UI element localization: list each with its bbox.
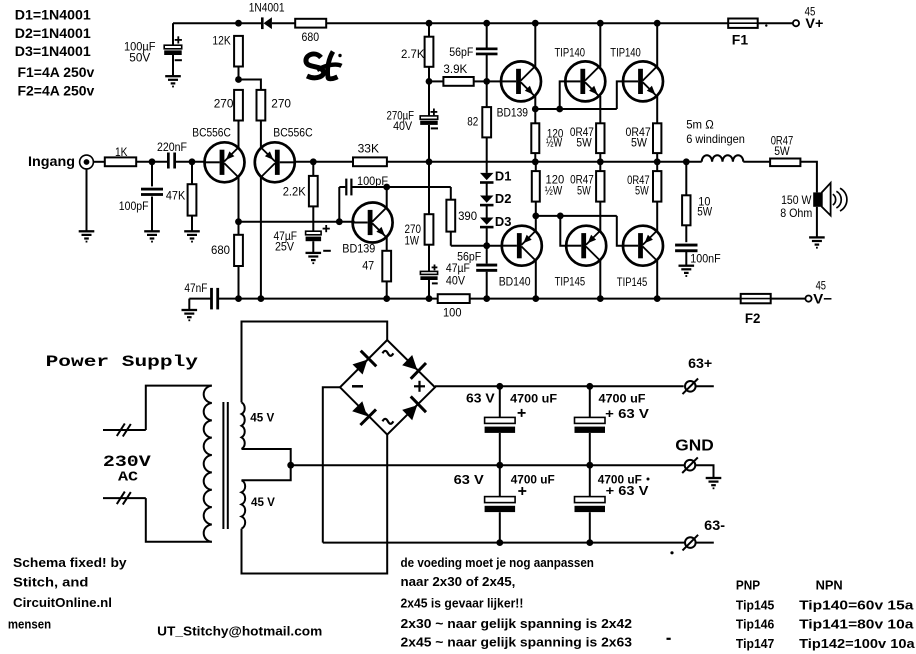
bridge diode BR3 (left-bottom)	[352, 401, 367, 416]
svg-text:270: 270	[214, 96, 234, 110]
stray mark (dash)	[667, 638, 671, 640]
wire TIP145-2 base riser	[617, 216, 623, 246]
svg-text:63+: 63+	[688, 355, 712, 371]
wire bias node to Q4 base	[487, 80, 502, 82]
label + (bridge right)	[414, 385, 425, 387]
svg-text:63 V: 63 V	[466, 390, 495, 405]
junction 3.9K / 82	[483, 78, 490, 85]
svg-text:270: 270	[271, 96, 291, 110]
wire D3 to BD140 base node	[486, 227, 488, 246]
junction node C	[532, 106, 539, 113]
svg-text:5W: 5W	[631, 137, 647, 149]
svg-text:1W: 1W	[405, 233, 420, 247]
transistor Q3 BD139 (VAS)	[353, 203, 393, 243]
svg-text:2x45 ~ naar gelijk spanning is: 2x45 ~ naar gelijk spanning is 2x63	[401, 636, 633, 650]
diode D2	[480, 196, 494, 203]
wire primary stub top	[103, 429, 146, 431]
svg-text:BD139: BD139	[497, 105, 529, 119]
capacitor C7 47uF 40V	[428, 245, 430, 272]
resistor R1 1K	[105, 157, 136, 166]
resistor R14 270 1W	[428, 162, 430, 214]
junction GND / cap1	[496, 462, 503, 469]
capacitor C15 4700uF (bottom right)	[589, 465, 591, 496]
junction output rail / bootstrap	[426, 158, 433, 165]
label - (C7)	[432, 282, 438, 284]
svg-text:4700 uF: 4700 uF	[511, 473, 555, 487]
svg-text:5W: 5W	[635, 186, 649, 198]
svg-text:0R47: 0R47	[570, 174, 594, 186]
svg-text:3.9K: 3.9K	[443, 62, 467, 76]
svg-text:150 W: 150 W	[781, 193, 812, 207]
wire primary loop bottom	[146, 498, 212, 542]
wire Q3 collector to node B	[386, 187, 388, 208]
junction node D / TIP145-1 base	[557, 213, 564, 220]
wire D1-D2	[486, 183, 488, 196]
ground (below C2)	[144, 230, 160, 232]
label - (C1)	[175, 59, 182, 61]
svg-text:D2=1N4001: D2=1N4001	[15, 25, 91, 41]
resistor R3 12K	[234, 36, 243, 67]
ground (below C1)	[165, 75, 181, 77]
wire output rail (mid)	[387, 161, 702, 163]
wire input to 1K	[93, 161, 104, 163]
speaker LS1 150W 8 Ohm	[813, 192, 822, 206]
transformer core	[222, 402, 224, 529]
label + (C4)	[323, 228, 330, 230]
svg-text:NPN: NPN	[816, 578, 843, 593]
svg-text:Ingang: Ingang	[28, 153, 75, 169]
svg-text:220nF: 220nF	[157, 140, 187, 154]
transistor Q6 TIP140 (2)	[623, 61, 663, 101]
svg-text:6 windingen: 6 windingen	[686, 132, 745, 146]
wire D2-D3	[486, 205, 488, 217]
resistor R6 47K	[191, 162, 193, 184]
transistor Q9 TIP145 (2)	[623, 226, 663, 266]
ground (V- rail left, via 47nF)	[188, 299, 190, 310]
fuse F2	[741, 294, 771, 303]
svg-text:Tip141=80v 10a: Tip141=80v 10a	[799, 617, 914, 632]
capacitor C8 56pF (upper)	[486, 23, 488, 48]
label - (C4)	[323, 250, 331, 252]
junction 63+ / cap2	[586, 383, 593, 390]
junction GND / cap2	[586, 462, 593, 469]
diode D4 1N4001 (rail diode)	[261, 17, 264, 29]
wire node C to TIP140-2 base riser	[535, 108, 617, 110]
svg-text:F1: F1	[732, 32, 749, 48]
junction top rail / 2.7K	[426, 20, 433, 27]
resistor R12 2.7K	[428, 23, 430, 37]
wire tail node to 270-2	[239, 80, 261, 90]
wire Q8 collector to V- rail	[599, 261, 601, 299]
resistor R22 10 5W (zobel)	[685, 162, 687, 196]
junction V- rail / TIP145-2 collector	[654, 295, 661, 302]
stray mark (dot near caps)	[647, 478, 650, 481]
wire Q1 collector down to node A	[238, 177, 240, 222]
svg-text:naar 2x30 of 2x45,: naar 2x30 of 2x45,	[401, 575, 516, 589]
wire speaker to ground	[816, 207, 818, 238]
junction V- rail / 47uF	[426, 295, 433, 302]
capacitor C1 100uF 50V	[164, 45, 182, 49]
resistor R19 120 half-watt (lower)	[535, 162, 537, 171]
resistor R17 0R47 5W (upper 1)	[599, 96, 601, 123]
signature SL	[306, 54, 324, 78]
junction V- rail / BD140 collector	[532, 295, 539, 302]
svg-text:Tip142=100v 10a: Tip142=100v 10a	[799, 636, 915, 651]
svg-text:TIP145: TIP145	[617, 275, 648, 289]
stray mark (dot)	[670, 551, 673, 554]
wire TIP140-2 base riser	[617, 81, 623, 109]
wire Q7 emitter to node D	[535, 216, 537, 231]
ground (zobel)	[679, 265, 695, 267]
junction V- rail / TIP145-1 collector	[597, 295, 604, 302]
capacitor C13 4700uF (top right)	[589, 386, 591, 417]
junction input / 47K	[189, 158, 196, 165]
junction node B	[383, 184, 390, 191]
svg-text:47nF: 47nF	[184, 281, 207, 295]
capacitor C12 4700uF (top left)	[499, 386, 501, 417]
junction 63+ / cap1	[496, 383, 503, 390]
svg-text:2x30 ~ naar gelijk spanning is: 2x30 ~ naar gelijk spanning is 2x42	[401, 617, 633, 631]
svg-text:5m Ω: 5m Ω	[686, 118, 714, 132]
resistor R21 0R47 5W (lower 2)	[656, 162, 658, 171]
svg-text:100pF: 100pF	[357, 174, 388, 188]
svg-text:45 V: 45 V	[250, 411, 274, 425]
resistor R18 0R47 5W (upper 2)	[656, 96, 658, 123]
svg-text:680: 680	[302, 30, 320, 44]
junction top rail / 12K	[235, 20, 242, 27]
svg-text:UT_Stitchy@hotmail.com: UT_Stitchy@hotmail.com	[157, 624, 322, 639]
transistor Q4 BD139 (upper driver)	[501, 61, 541, 101]
resistor R2 680 (rail)	[295, 19, 326, 28]
svg-text:BD139: BD139	[342, 241, 375, 255]
svg-text:GND: GND	[675, 437, 714, 454]
capacitor C4 47uF 25V	[306, 231, 322, 235]
wire Q9 collector to V- rail	[656, 261, 658, 299]
svg-text:Stitch, and: Stitch, and	[13, 575, 88, 590]
svg-text:50V: 50V	[129, 50, 150, 64]
wire secondary top to bridge AC1	[242, 322, 388, 403]
svg-text:680: 680	[211, 243, 230, 257]
capacitor C11 47nF	[189, 298, 210, 300]
svg-text:F2=4A 250v: F2=4A 250v	[18, 83, 95, 99]
terminal GND	[685, 460, 696, 471]
ground (below C4)	[306, 252, 322, 254]
resistor R5 270 (right)	[257, 90, 266, 121]
svg-text:56pF: 56pF	[457, 249, 481, 263]
ground (power supply)	[706, 477, 722, 479]
capacitor C9 56pF (lower)	[486, 246, 488, 264]
resistor R16 120 half-watt (upper)	[534, 109, 536, 123]
svg-text:AC: AC	[118, 471, 138, 486]
svg-text:D3: D3	[495, 214, 512, 229]
junction node C / TIP140-1 base	[556, 106, 563, 113]
junction 12K bottom / 270 pair	[235, 76, 242, 83]
svg-text:TIP140: TIP140	[610, 46, 641, 60]
ground (speaker)	[809, 236, 825, 238]
svg-text:mensen: mensen	[8, 617, 51, 632]
svg-text:40V: 40V	[393, 119, 412, 133]
wire 270-2 to BC556C-2 emitter	[260, 121, 262, 148]
svg-text:V+: V+	[805, 15, 823, 31]
svg-text:½W: ½W	[545, 186, 563, 198]
svg-text:BD140: BD140	[499, 274, 531, 288]
svg-text:Tip147: Tip147	[736, 636, 774, 651]
svg-text:2.7K: 2.7K	[401, 47, 425, 61]
terminal V- (open circle)	[805, 296, 811, 302]
bridge rectifier outline	[340, 340, 435, 435]
svg-text:F2: F2	[745, 310, 761, 326]
svg-text:V−: V−	[813, 290, 832, 306]
transformer TR1 primary winding	[204, 386, 212, 542]
transistor Q1 BC556C (left)	[205, 142, 245, 182]
resistor R9 2.2K	[312, 162, 314, 176]
junction top rail / TIP140-1 collector	[597, 20, 604, 27]
wire 1K to 220nF	[136, 161, 167, 163]
wire node B to 390	[387, 186, 451, 188]
junction feedback node (33K/2.2K)	[310, 158, 317, 165]
svg-text:CircuitOnline.nl: CircuitOnline.nl	[13, 595, 112, 610]
svg-text:+ 63 V: + 63 V	[605, 406, 649, 421]
svg-text:5W: 5W	[577, 186, 591, 198]
wire Q6 collector to V+ rail	[656, 23, 658, 67]
junction 63- / cap2	[586, 539, 593, 546]
svg-text:Tip146: Tip146	[736, 617, 774, 632]
svg-text:5W: 5W	[697, 204, 712, 218]
svg-text:230V: 230V	[103, 453, 152, 471]
wire 0R47 to speaker	[800, 162, 817, 193]
connector slash (primary top)	[117, 424, 125, 437]
speaker sound waves	[833, 194, 836, 205]
transformer secondary winding upper 45V	[242, 402, 245, 449]
wire node A to BD139-2 base	[239, 221, 355, 223]
resistor R11 390	[450, 187, 452, 200]
transistor Q2 BC556C (right, mirrored)	[255, 142, 295, 182]
resistor R23 0R47 5W (output)	[770, 159, 800, 167]
junction V- rail / Q2 collector	[258, 295, 265, 302]
label + (C14)	[518, 490, 526, 492]
svg-text:D1=1N4001: D1=1N4001	[15, 7, 91, 23]
junction output rail / 120 column	[532, 158, 539, 165]
wire V- rail right segment	[470, 298, 741, 300]
junction 63- / cap1	[496, 539, 503, 546]
transformer secondary winding lower 45V	[242, 480, 246, 528]
diode D1	[480, 173, 494, 180]
svg-text:½W: ½W	[546, 137, 562, 149]
svg-text:390: 390	[458, 209, 477, 223]
junction V- rail / 56pF lower	[483, 295, 490, 302]
junction node A / 100pF leg	[336, 218, 343, 225]
junction output rail / 0R47-2	[654, 158, 661, 165]
transistor Q8 TIP145 (1)	[566, 226, 606, 266]
junction V- rail / Q1 load 680	[235, 295, 242, 302]
svg-text:82: 82	[467, 114, 478, 128]
svg-text:Power Supply: Power Supply	[46, 353, 198, 371]
svg-text:D1: D1	[495, 168, 512, 183]
svg-text:+ 63 V: + 63 V	[606, 483, 649, 498]
wire 220nF to BC556C-1 base	[176, 161, 205, 163]
junction output rail / zobel	[683, 158, 690, 165]
wire V- rail (63-)	[323, 542, 685, 544]
svg-text:25V: 25V	[275, 240, 294, 254]
label ~ (bridge top)	[383, 351, 394, 356]
svg-text:100pF: 100pF	[119, 199, 149, 213]
transistor Q7 BD140 (lower driver)	[502, 226, 542, 266]
resistor R7 680 (Q1 load)	[238, 222, 240, 235]
wire 270-1 to BC556C-1 emitter	[238, 121, 240, 148]
wire GND terminal to ground symbol	[696, 465, 714, 478]
wire 390 to BD140 base	[451, 245, 502, 247]
label - (bridge left)	[352, 385, 363, 388]
svg-text:Tip140=60v 15a: Tip140=60v 15a	[799, 598, 914, 613]
junction BD140 base node	[483, 242, 490, 249]
svg-text:Tip145: Tip145	[736, 598, 774, 613]
junction V- rail / 47 resistor	[383, 295, 390, 302]
svg-text:de voeding moet je nog aanpass: de voeding moet je nog aanpassen	[401, 556, 594, 570]
junction top rail / TIP140-2 collector	[654, 20, 661, 27]
wire 63+ rail	[435, 385, 684, 387]
svg-text:D2: D2	[495, 191, 512, 206]
capacitor C6 270uF 40V (bootstrap)	[428, 81, 430, 116]
wire Q5 collector to V+ rail	[599, 23, 601, 67]
svg-text:47K: 47K	[166, 189, 185, 203]
svg-text:5W: 5W	[576, 137, 591, 149]
resistor R8 33K (feedback)	[353, 157, 387, 166]
resistor R13 3.9K	[429, 80, 443, 82]
terminal 63+	[685, 381, 696, 392]
label + (C6)	[431, 111, 438, 113]
capacitor C10 100nF (zobel)	[675, 244, 697, 247]
label + (C1)	[175, 39, 182, 41]
label + (C12)	[518, 412, 526, 414]
svg-text:4700 uF: 4700 uF	[599, 392, 646, 406]
wire center tap	[242, 449, 291, 480]
svg-text:2.2K: 2.2K	[283, 185, 306, 199]
wire V+ rail middle segment	[326, 22, 728, 24]
svg-text:PNP: PNP	[736, 578, 760, 593]
junction top rail / BD139 collector	[532, 20, 539, 27]
wire primary stub bottom	[103, 497, 146, 499]
junction 2.7K / 3.9K / 270uF	[426, 78, 433, 85]
wire primary loop top	[146, 386, 212, 430]
ground (input jack)	[79, 230, 95, 232]
ground (below 47K)	[184, 230, 200, 232]
terminal 63-	[685, 537, 696, 548]
capacitor C2 100pF (input filter)	[151, 162, 153, 187]
junction top rail / 56pF column	[483, 20, 490, 27]
resistor R24 100 (rail decoupling)	[438, 294, 470, 303]
capacitor C3 220nF (input coupling)	[167, 153, 170, 169]
svg-text:F1=4A 250v: F1=4A 250v	[18, 64, 95, 80]
capacitor C5 100pF (VAS compensation)	[338, 187, 340, 222]
connector slash (primary bottom)	[117, 492, 125, 505]
wire TIP145-1 base riser	[560, 216, 566, 246]
label ~ (bridge bottom)	[383, 419, 394, 424]
wire Q4 emitter to node C	[534, 96, 536, 109]
wire F2 to terminal	[771, 298, 805, 300]
wire Q7 collector to V- rail	[535, 261, 537, 299]
wire bridge minus to V- rail	[323, 387, 340, 542]
svg-text:12K: 12K	[212, 33, 230, 47]
svg-text:40V: 40V	[446, 273, 465, 287]
wire secondary bottom to bridge AC2	[242, 434, 388, 574]
svg-text:63 V: 63 V	[454, 472, 484, 487]
svg-text:1N4001: 1N4001	[249, 1, 285, 15]
wire V+ rail to terminal	[758, 22, 793, 24]
svg-text:1K: 1K	[115, 145, 128, 159]
svg-text:47: 47	[362, 258, 374, 272]
wire inductor to 0R47 output	[743, 161, 770, 163]
transistor Q5 TIP140 (1)	[565, 61, 605, 101]
svg-text:100: 100	[443, 305, 462, 319]
svg-text:45 V: 45 V	[251, 495, 275, 509]
junction center tap	[287, 462, 294, 469]
svg-text:63-: 63-	[704, 517, 725, 533]
wire TIP140-1 base riser	[560, 81, 566, 109]
wire V+ rail left segment	[173, 22, 262, 24]
junction input / 100pF	[149, 158, 156, 165]
wire GND rail	[291, 464, 685, 466]
svg-text:TIP145: TIP145	[555, 274, 586, 288]
terminal V+ (open circle)	[793, 20, 799, 26]
svg-text:56pF: 56pF	[449, 45, 473, 59]
input connector J1	[80, 155, 94, 169]
capacitor C14 4700uF (bottom left)	[499, 465, 501, 496]
diode D3	[480, 218, 494, 225]
resistor R4 270 (left)	[234, 90, 243, 121]
svg-text:4700 uF: 4700 uF	[510, 392, 557, 406]
svg-text:100nF: 100nF	[690, 252, 720, 266]
svg-text:BC556C: BC556C	[273, 126, 313, 140]
junction node A / 680	[235, 218, 242, 225]
wire Q4 collector to V+ rail	[534, 23, 536, 67]
bridge diode BR1 (left-top)	[353, 360, 368, 375]
svg-text:Schema fixed! by: Schema fixed! by	[13, 555, 127, 570]
bridge diode BR4 (bottom-right)	[402, 405, 417, 420]
svg-text:5W: 5W	[774, 144, 790, 158]
label - (C6)	[431, 127, 438, 129]
wire Q2 base to feedback node	[295, 161, 353, 163]
label + (C7)	[432, 266, 438, 268]
wire node D to TIP145-2 base riser	[536, 215, 617, 217]
junction output rail / 0R47-1	[597, 158, 604, 165]
wire input jack sleeve to ground	[86, 169, 88, 231]
fuse F1	[728, 19, 758, 28]
svg-text:BC556C: BC556C	[192, 126, 231, 140]
svg-text:8 Ohm: 8 Ohm	[780, 206, 812, 220]
inductor L1 5m ohm	[702, 155, 744, 162]
resistor R20 0R47 5W (lower 1)	[599, 162, 601, 171]
resistor R15 82	[486, 81, 488, 107]
resistor R10 47	[386, 237, 388, 251]
svg-text:120: 120	[546, 174, 565, 186]
svg-text:2x45 is gevaar lijker!!: 2x45 is gevaar lijker!!	[401, 597, 524, 611]
svg-text:TIP140: TIP140	[555, 46, 586, 60]
svg-text:33K: 33K	[358, 142, 379, 156]
svg-text:D3=1N4001: D3=1N4001	[15, 43, 91, 59]
junction node D	[532, 213, 539, 220]
bridge diode BR2 (top-right)	[402, 355, 417, 370]
wire Q2 collector down to V- rail	[260, 177, 262, 298]
